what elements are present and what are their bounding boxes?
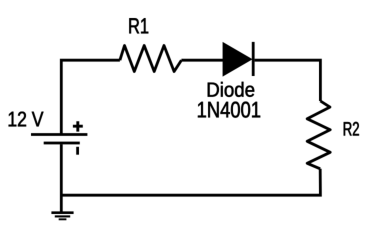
minus sign (battery negative terminal, vertical dash) — [76, 147, 79, 155]
wire: diode cathode to top-right corner — [255, 60, 321, 101]
label Diode — [208, 82, 254, 97]
label 1N4001 — [198, 102, 260, 118]
label 12 V — [9, 112, 44, 127]
label R2 — [344, 122, 359, 136]
wire: battery negative down through bottom rail junction to ground — [60, 144, 63, 211]
wire: top-left corner (battery positive up to top rail, left segment) — [61, 60, 120, 134]
resistor R1 — [120, 46, 181, 72]
wire: R2 bottom to bottom rail back to battery — [60, 169, 320, 195]
battery V1 top plate (long, positive) — [31, 133, 87, 136]
ground symbol — [51, 213, 73, 220]
wire: R1 to diode anode — [181, 59, 223, 62]
label R1 — [129, 18, 148, 33]
battery V1 bottom plate (short, negative) — [44, 142, 80, 145]
diode D1 cathode bar — [252, 42, 255, 76]
plus sign (battery positive terminal) — [73, 121, 83, 131]
resistor R2 — [307, 101, 330, 169]
diode D1 triangle (anode) — [223, 43, 251, 76]
